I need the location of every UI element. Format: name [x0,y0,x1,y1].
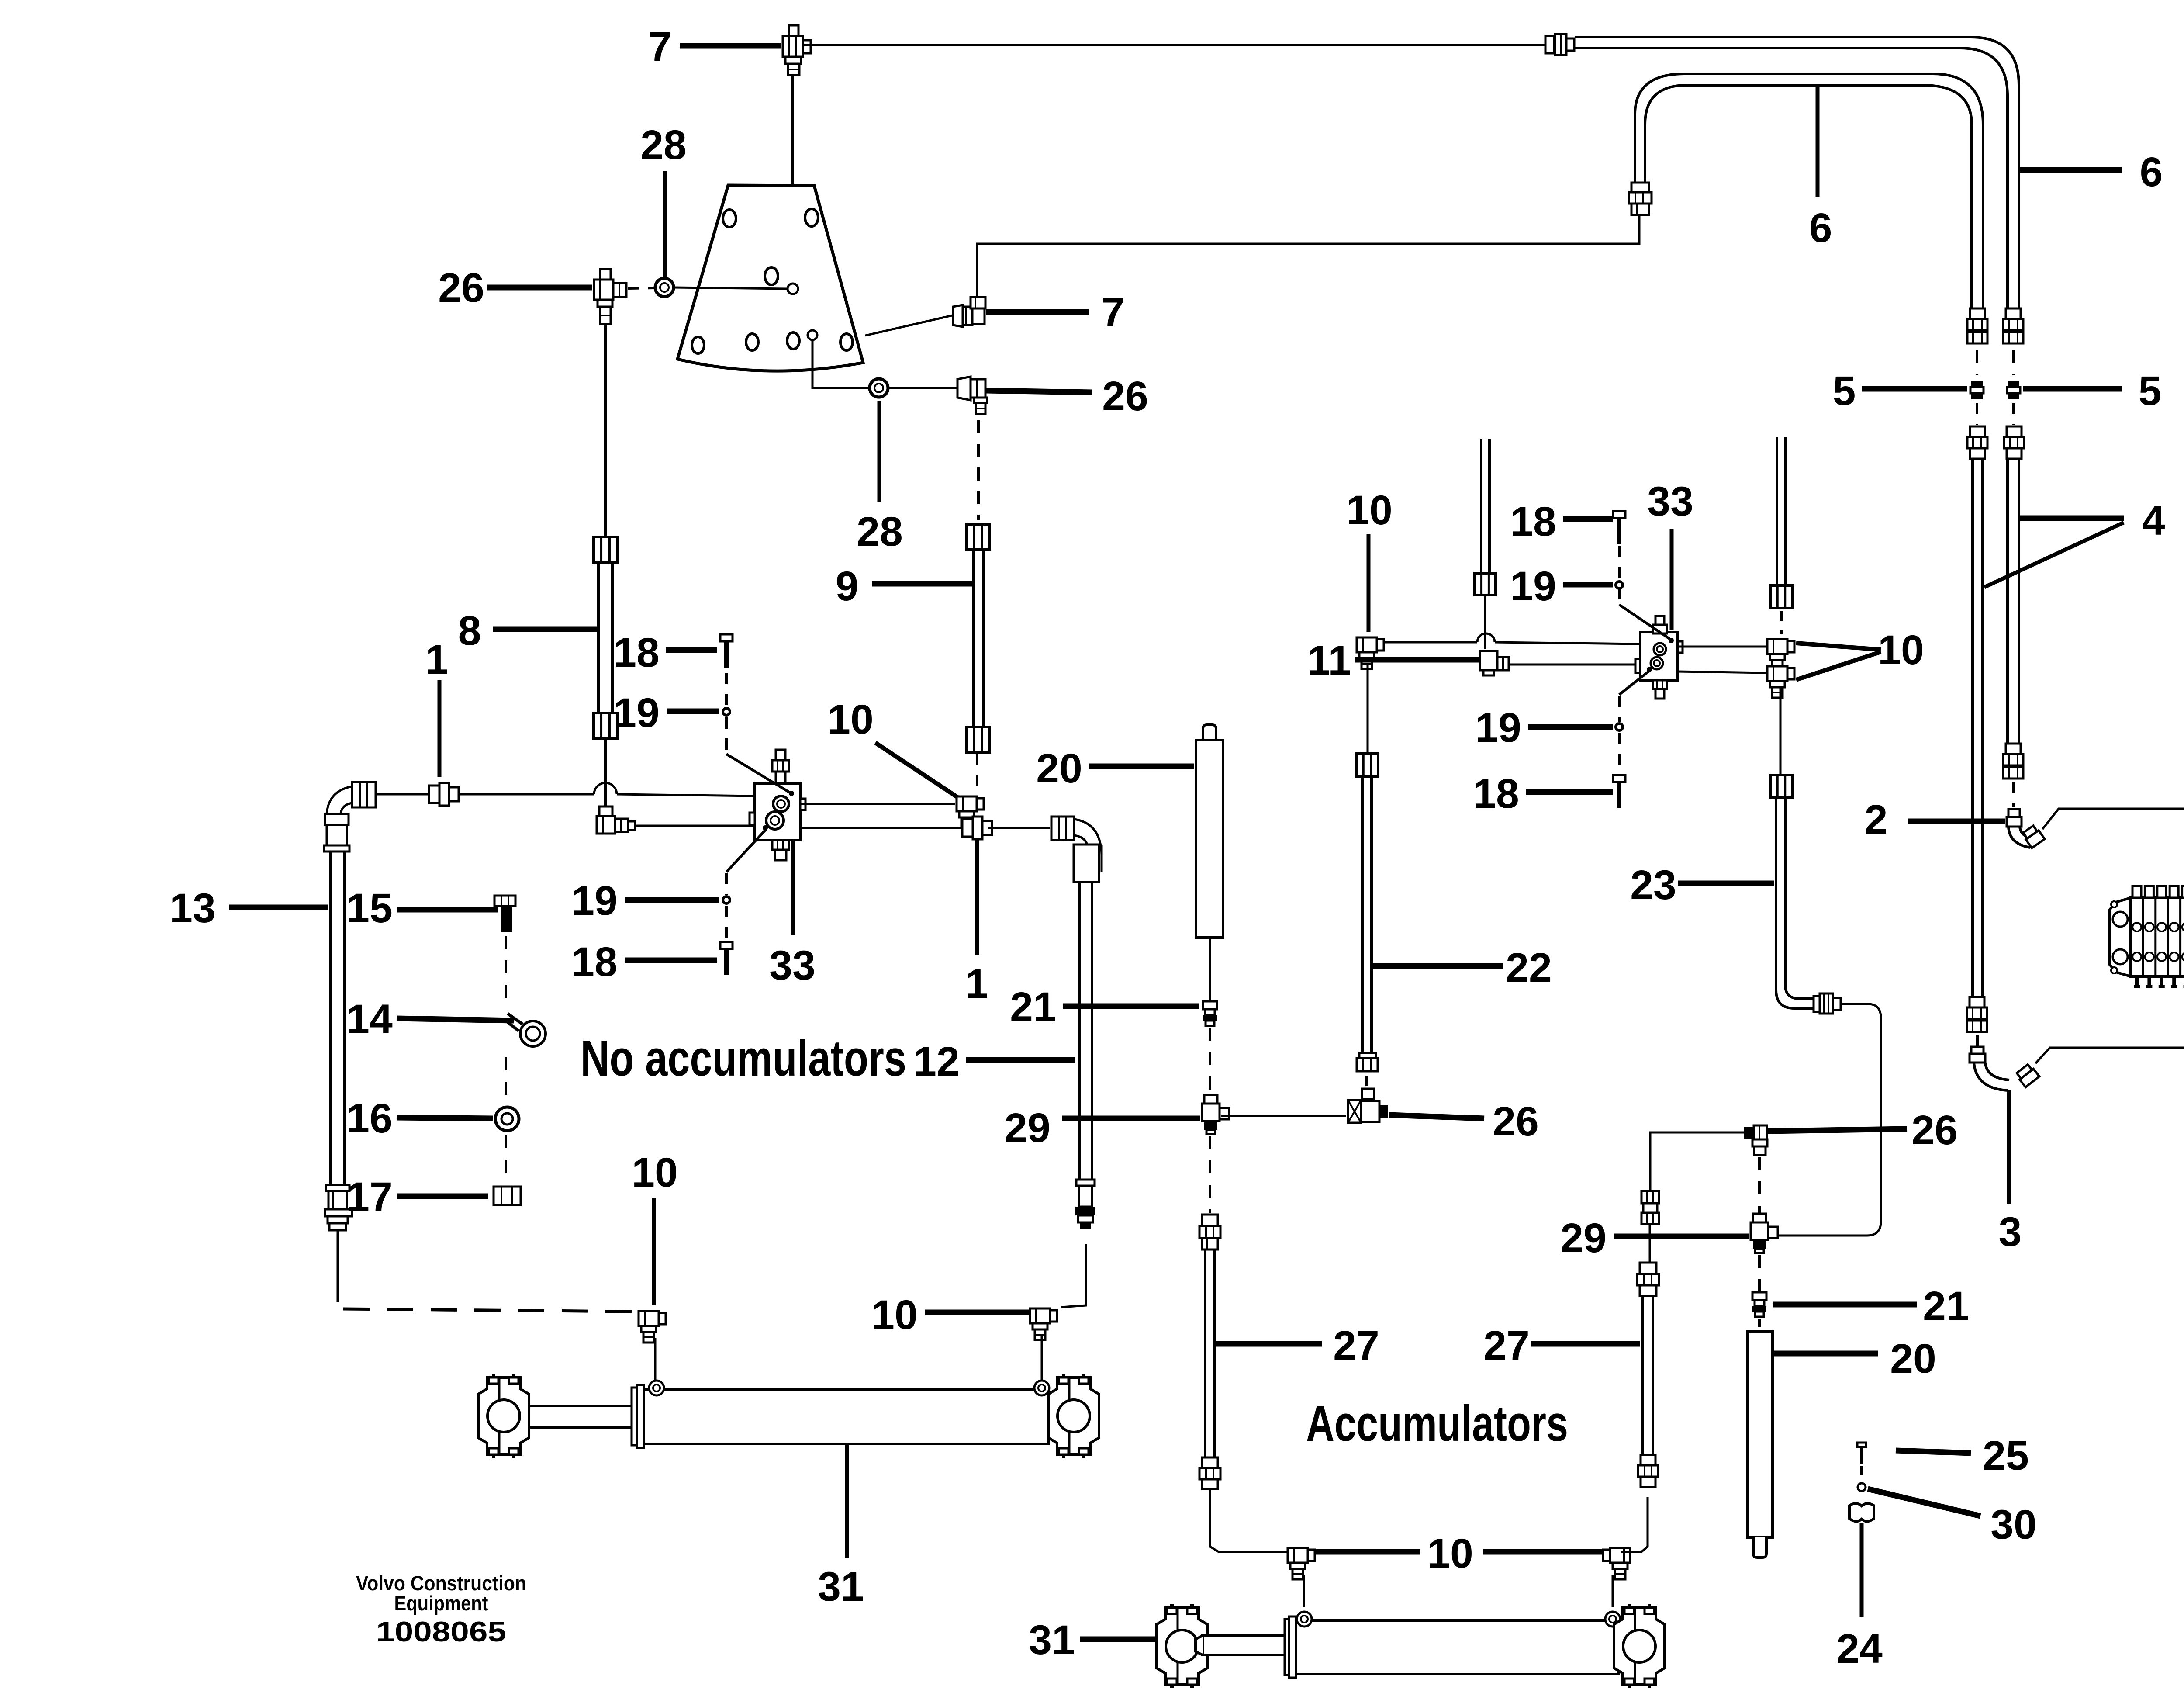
wire label 18 lower [625,958,717,963]
plate hole middle [765,267,778,285]
sleeve 17 [494,1187,521,1205]
valve 33 right top plug [1653,616,1667,633]
svg-text:10: 10 [632,1149,678,1196]
wire elbow to boss [1041,1335,1043,1382]
wire label 27 right to hose [1531,1341,1640,1347]
wire label 30 diagonal to ring [1868,1489,1980,1516]
plate hole top-right [805,209,818,226]
bolt 18 upper-left [720,634,733,641]
hose 6 inner (lower bend) [1635,74,1983,308]
hose 27 left top fitting [1199,1215,1220,1250]
screw dot 19 lower-left [723,896,730,903]
wire fitting 1 down to label [975,840,979,955]
wire label 11 to tee [1355,657,1479,663]
wire label 26 to elbow [487,285,592,291]
svg-text:19: 19 [571,878,618,924]
wire label 4 fork to hose left [1984,523,2124,587]
dashed wire hose 6 to check valves 5 [1976,350,1978,375]
wire plate hole down to ring 28 right [812,340,869,388]
hose 27 right [1641,1296,1644,1455]
valve 33 right bottom plug [1653,680,1667,699]
wire elbow 26 to label [986,391,1092,392]
svg-text:11: 11 [1307,637,1351,684]
wire block to elbow upper [1678,646,1766,648]
svg-text:18: 18 [571,939,618,985]
svg-text:20: 20 [1036,745,1082,792]
elbow fitting 26 top-left [594,269,626,324]
wire label 27 to hose [1216,1341,1322,1347]
svg-text:1: 1 [965,961,988,1007]
wire leader to block dot [726,754,790,793]
wire block dot diagonal [1619,670,1650,695]
screw dot 19 upper-left [723,708,730,715]
wire label 19 lower [625,897,719,903]
elbow fitting 26 right-middle [1744,1125,1767,1155]
svg-text:1: 1 [425,637,449,683]
svg-text:26: 26 [1102,373,1148,419]
wire label 2 to bent pipe [1908,819,2005,824]
cylinder 31 left gland [632,1388,637,1445]
wire label 21 to fitting [1063,1004,1199,1009]
manifold section 1 [2131,886,2141,988]
dashed wire bolt to diagonal [1618,546,1621,604]
svg-text:26: 26 [438,265,484,311]
wire ring 28 to plate hole [674,287,787,289]
tee fitting 29 right [1753,1214,1766,1222]
hose 13 [329,851,332,1185]
svg-text:16: 16 [346,1095,393,1142]
wire label 10 right segment [1483,1549,1604,1555]
wire label 17 to sleeve [397,1194,488,1199]
wire label 4 to hose right [2020,516,2124,521]
cylinder 31 left rod [529,1406,632,1428]
wire label 14 to clip [397,1018,514,1021]
wire block 33 lower to fitting 1 [800,827,961,829]
bent pipe 2 upper [2007,809,2045,848]
hose 4 right bottom fitting [2006,744,2021,754]
hose 6 outer end fitting bottom [2006,308,2021,319]
wire elbow to hose 27 right [1621,1497,1648,1552]
wire label 16 to ring [397,1118,493,1118]
svg-text:6: 6 [1809,205,1832,251]
svg-text:10: 10 [827,696,874,743]
tube 9 top nut [966,524,990,550]
svg-text:10: 10 [871,1292,918,1338]
wire label 21 to fitting [1773,1302,1917,1308]
cylinder 31 right clamp right [1614,1604,1665,1688]
wire block to label 33 [791,841,795,935]
wire wing bolt down [1860,1523,1864,1617]
svg-text:2: 2 [1865,796,1888,843]
tube 8 [597,562,600,712]
manifold section 4 [2168,886,2178,988]
dashed wire elbow 26 down to tube 9 [977,420,980,520]
svg-text:33: 33 [1647,478,1693,525]
hose 6 inner end fitting bottom [1970,308,1985,319]
screw dot 19 right-upper [1616,582,1623,588]
wire elbow 26 left leg [1650,1132,1744,1191]
fitting 21 right [1752,1292,1766,1300]
svg-text:31: 31 [818,1564,864,1610]
wire ring 28 right to elbow 26 [888,387,957,389]
svg-text:19: 19 [1510,563,1556,609]
cylinder 31 right clamp left [1157,1604,1207,1688]
tube 23 upper [1776,437,1778,585]
wire label fork upper [1796,643,1881,650]
svg-text:23: 23 [1630,862,1676,908]
svg-text:22: 22 [1506,945,1552,991]
tube 23 end nut [1814,993,1841,1014]
plate hole top-left [723,210,736,227]
svg-text:21: 21 [1923,1283,1969,1329]
wire label 20 to accumulator [1774,1351,1878,1357]
dashed wire dot 19 to bolt 18 [725,906,728,940]
tube 22 hose [1361,776,1364,1053]
svg-text:24: 24 [1836,1626,1883,1672]
dashed wire dot 19 to block [725,717,728,753]
svg-text:7: 7 [649,24,672,70]
svg-text:14: 14 [346,996,393,1042]
wire label 10 down to elbow [1367,534,1371,632]
cylinder 31 right barrel [1296,1620,1618,1674]
accumulator 20 left [1196,725,1223,938]
wire label 18 [1563,516,1613,522]
tee fitting 7 right [953,297,985,327]
wire ring 28 down to label 28 [878,401,881,502]
dashed wire hose 4 right to elbow 2 [2012,782,2015,807]
svg-text:17: 17 [346,1174,393,1220]
dashed wire below bolt 15 [505,936,507,1008]
wire cylinder to label 31 [845,1445,849,1558]
hose 4 right top fitting [2004,426,2024,459]
wire elbow to boss right [1612,1575,1614,1607]
wire elbow 26 down to tube 8 [604,324,607,536]
tee fitting 7 left [783,25,811,75]
tube 22 bottom nut [1357,1053,1378,1071]
manifold section 5 [2181,886,2184,988]
dashed wire tube 9 to elbow 10 [976,754,978,786]
wire coupling to hose 27 right [1649,1224,1651,1263]
svg-text:20: 20 [1890,1336,1936,1382]
svg-text:29: 29 [1004,1105,1051,1151]
plate hole small low [808,330,817,340]
svg-text:28: 28 [857,509,903,555]
elbow fitting 10 (right of block 33) [957,796,984,828]
wire label 22 to tube [1373,963,1503,969]
fitting 1 left [429,786,439,803]
bolt 15 [494,896,515,932]
cylinder 31 left barrel [644,1389,1048,1444]
cylinder 31 left boss right [1034,1381,1049,1395]
svg-text:19: 19 [613,690,660,736]
svg-text:19: 19 [1475,705,1521,751]
dashed wire to dot 19 [725,873,728,895]
svg-text:18: 18 [613,630,660,676]
wire label 25 to pin [1896,1450,1971,1453]
dashed wire hose 4 left to bent pipe [1976,1035,1979,1058]
svg-text:26: 26 [1493,1098,1539,1145]
svg-text:8: 8 [458,608,481,654]
dashed wire tube 22 to tee 26 [1365,1076,1368,1093]
wire label 10 diagonal [875,743,961,800]
bolt 18 lower-left [720,942,733,949]
elbow fitting 10 right pair upper [1767,639,1794,671]
wire label 31 to cylinder [1080,1637,1157,1642]
svg-text:9: 9 [836,563,859,609]
check valve 5 left [1971,381,1983,387]
dashed wire below bolt 18 [725,673,728,707]
pin 25 [1857,1443,1866,1464]
hose 6 outer end fitting left [1545,34,1574,55]
hose 4 left bottom fitting [1970,997,1984,1007]
hose 6 outer (top right bend) [1575,37,2019,308]
tube 22 top nut [1356,753,1378,777]
wire elbow to boss [654,1338,657,1382]
wire label 20 to accumulator [1089,764,1194,769]
hose 27 left bottom fitting [1199,1457,1220,1489]
svg-text:13: 13 [169,885,216,931]
cylinder 31 right boss left [1297,1612,1312,1627]
svg-text:3: 3 [1999,1209,2022,1255]
tube 9 [972,550,975,726]
wire pipe 2 to fitting 1 upper [2042,809,2184,844]
tube 11 [1480,439,1482,573]
wire label 7 to tee [680,43,781,49]
valve block 33 left [750,783,805,840]
wing bolt 24 [1849,1503,1874,1521]
wire label fork lower [1796,652,1881,680]
bolt 18 right-lower [1613,775,1625,782]
dashed wire nut to elbow 10 [1780,611,1783,634]
elbow fitting 10 mid-right [1030,1308,1057,1340]
svg-text:6: 6 [2140,149,2163,195]
plate hole small mid [788,284,798,294]
svg-text:25: 25 [1983,1433,2029,1479]
elbow fitting 10 right pair lower [1767,666,1794,698]
wire label 10 left segment [1314,1549,1420,1555]
elbow fitting 10 mid-left [639,1311,666,1343]
valve 33 bottom plug [772,840,789,860]
cylinder 31 left clamp left [478,1374,529,1458]
wire label 19 [1563,582,1613,588]
grommet ring 28 left [655,278,674,297]
bent pipe lower (26) [1970,1047,2039,1090]
wire hose 6 outer to label [2020,167,2122,173]
check valve 5 right [2008,381,2019,387]
tube 8 bottom nut [594,713,617,738]
svg-text:Equipment: Equipment [394,1592,488,1615]
svg-text:1008065: 1008065 [376,1616,506,1648]
wire label 1 down to fitting [438,680,442,777]
svg-text:29: 29 [1560,1215,1607,1261]
wire label 15 to bolt [397,907,498,913]
dashed wire hose 13 to elbow 10 [343,1309,632,1312]
svg-text:10: 10 [1427,1530,1473,1577]
wire label 33 to block [1670,529,1674,630]
svg-text:27: 27 [1333,1322,1379,1369]
tube 23 lower [1776,798,1794,1008]
grommet ring 28 right [870,379,888,397]
elbow fitting below tube 8 [597,807,635,834]
svg-text:26: 26 [1911,1107,1958,1153]
wire label 18 lower [1526,789,1613,795]
washer ring 16 [495,1107,519,1131]
wire block dot to dashed [726,829,766,872]
wire fitting 7 up and right to hose 6 inner [977,216,1639,297]
dashed wire dot to bolt 18 [1618,733,1621,774]
wire label 18 [666,647,717,653]
wire hose 27 left to elbow 10 [1210,1489,1288,1552]
wire hose 6 inner to label 6 [1816,87,1820,197]
svg-text:18: 18 [1473,771,1519,817]
wire tube 23 to tee 29 right [1770,1004,1881,1236]
wire tube 11 to tee [1484,595,1486,649]
tube 8 top nut [594,537,617,562]
wire tee 29 to tee 26 [1221,1115,1346,1117]
wire plate to fitting 7 right [865,315,952,336]
bolt 18 right-upper [1613,511,1625,518]
wire tee 11 to block [1509,664,1635,666]
valve block 33 right [1635,632,1683,680]
fitting 1 middle [962,819,973,837]
wire label 5 left [1862,386,1967,392]
wire label 10 down to elbow [652,1198,656,1305]
hose 27 right bottom fitting [1638,1455,1658,1487]
wire label 23 to tube [1678,881,1774,886]
screw dot 19 right-lower [1616,723,1623,730]
wire diagonal to block dot [1619,605,1669,639]
wire label 28 down to ring [663,171,667,277]
svg-text:5: 5 [1833,368,1856,414]
wire elbow to valve block 33 [635,825,754,827]
bracket plate (trapezoid) [677,185,863,371]
plate hole bottom row 1 [692,337,704,353]
wire elbow 10 to block with hop [1383,641,1477,644]
svg-text:30: 30 [1990,1502,2037,1548]
hose 6 inner end fitting upper [1629,183,1652,215]
svg-text:10: 10 [1878,627,1924,673]
coupling on hose 27 right [1641,1191,1659,1224]
wire elbow lower down to tube 23 [1780,686,1782,774]
hose 27 left [1204,1250,1206,1457]
elbow fitting 10 bottom-left [1288,1548,1315,1579]
wire label 9 to tube [872,581,972,587]
svg-text:31: 31 [1029,1617,1075,1663]
wire fitting 1 to valve block with hop [460,793,594,796]
wire elbow 10 down to tube 22 [1367,664,1369,752]
svg-text:27: 27 [1483,1322,1530,1369]
ring 30 [1858,1483,1866,1491]
svg-text:7: 7 [1102,289,1125,336]
wire label 8 to tube [493,627,597,632]
cylinder 31 left boss left [649,1381,664,1395]
tee fitting 29 left [1204,1095,1217,1104]
svg-text:28: 28 [640,122,687,168]
wire elbow to boss [1303,1575,1305,1607]
wire label 10 to elbow [925,1310,1029,1315]
tee fitting 11 [1480,651,1509,675]
elbow fitting 10 (left of block 33 right) [1357,637,1384,669]
hose 13 top elbow [324,782,376,851]
plate hole bottom row 3 [787,332,799,349]
dashed wire elbow 26 down to tee 29 [1758,1157,1761,1221]
plate hole bottom row 4 [840,334,853,350]
svg-text:Accumulators: Accumulators [1306,1395,1568,1452]
dashed wire 21 to tee 29 [1209,1028,1211,1096]
tube 9 bottom nut [966,727,990,752]
hose 13 bottom fitting [325,1185,352,1230]
valve manifold 32 [2110,898,2184,976]
wire hose 13 down [337,1230,339,1302]
cylinder 31 right boss right [1605,1612,1620,1627]
wire bent pipe to label 26 [1766,1129,1907,1131]
tube 11 bottom nut [1475,573,1496,595]
hose 12 bottom fitting [1075,1180,1095,1229]
manifold section 2 [2143,886,2153,988]
wire label 19 lower [1528,724,1613,730]
svg-text:No accumulators: No accumulators [581,1030,906,1087]
svg-text:12: 12 [913,1038,960,1085]
hose 4 left top fitting [1967,426,1987,459]
dashed wire 16 to 17 [505,1135,507,1180]
wire accumulator to fitting 21 [1209,938,1211,1000]
wire fitting 1 to hose 12 elbow [988,827,1050,829]
tube 23 upper bottom nut [1770,585,1792,608]
wire label 29 to tee [1062,1116,1200,1121]
tube 23 nut [1770,775,1792,798]
dashed wire 21 to accumulator [1758,1319,1761,1329]
plate hole bottom row 2 [746,334,758,350]
wire tee 26 to label [1389,1115,1484,1118]
svg-text:5: 5 [2139,368,2162,414]
wire tee 7 right to hose 6 fitting [804,44,1545,46]
svg-text:33: 33 [769,942,816,989]
wire hose 13 elbow to fitting 1 [377,793,428,796]
hose 27 right top fitting [1637,1263,1659,1296]
clip 14 [507,1014,546,1046]
cylinder 31 right rod [1196,1636,1286,1655]
wire label 5 right [2023,386,2122,392]
wire hose 12 down and left [1061,1244,1086,1307]
hose 4 left [1971,459,1974,997]
hose 12 top elbow [1051,817,1102,882]
wire label 29 to tee [1614,1234,1749,1239]
svg-text:10: 10 [1346,487,1393,533]
dashed wire valves 5 to hoses 4 [1976,403,1978,425]
wire label 13 to hose [229,905,328,910]
cylinder 31 left clamp right [1048,1374,1099,1458]
dashed wire pin to ring 30 [1860,1466,1863,1482]
dashed wire elbow 26 to ring 28 [628,288,654,288]
svg-text:4: 4 [2142,498,2165,544]
wire fitting 7 right to label [986,309,1089,315]
wire tube 8 to elbow [604,738,607,813]
elbow fitting 10 bottom-right [1603,1548,1630,1579]
wire fitting 1 lower to bent pipe [2035,1044,2184,1063]
dashed wire tee 29 down to hose 27 [1209,1136,1211,1213]
svg-text:18: 18 [1510,498,1556,545]
fitting 21 left [1203,1001,1217,1009]
wire block to elbow lower [1678,672,1766,673]
dashed wire tee 29 to fitting 21 [1758,1255,1761,1292]
dashed wire to dot 19 [1618,696,1621,722]
valve 33 top plug [772,750,789,783]
hose 12 [1078,882,1081,1180]
tee fitting 26 left [1348,1089,1388,1123]
svg-text:15: 15 [346,885,393,931]
wire label 19 [667,709,719,714]
hose 4 right [2006,459,2009,744]
